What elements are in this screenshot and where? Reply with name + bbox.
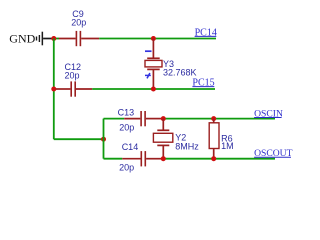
wire xyxy=(103,119,105,159)
node xyxy=(161,116,166,121)
wire xyxy=(53,39,55,140)
node xyxy=(151,87,156,92)
crystal Y3 xyxy=(145,39,197,90)
node xyxy=(51,87,56,92)
ground xyxy=(9,31,54,45)
svg-text:20p: 20p xyxy=(119,163,134,173)
net label PC14 xyxy=(195,27,217,38)
wire xyxy=(162,158,276,160)
capacitor C14 xyxy=(119,142,161,172)
node xyxy=(211,116,216,121)
net label PC15 xyxy=(192,78,214,89)
svg-text:C14: C14 xyxy=(122,142,139,152)
svg-text:C13: C13 xyxy=(118,108,135,118)
svg-text:8MHz: 8MHz xyxy=(175,141,199,151)
svg-text:20p: 20p xyxy=(71,17,86,27)
wire xyxy=(162,118,276,120)
node xyxy=(101,137,106,142)
wire xyxy=(54,138,104,140)
svg-text:GND: GND xyxy=(9,31,35,45)
svg-text:20p: 20p xyxy=(65,70,80,80)
wire xyxy=(54,38,59,40)
net label OSCOUT xyxy=(254,148,293,159)
pin marker minus xyxy=(145,50,152,52)
net label OSCIN xyxy=(254,109,283,120)
wire xyxy=(104,118,125,120)
node xyxy=(211,156,216,161)
crystal Y2 xyxy=(153,119,199,159)
node xyxy=(151,36,156,41)
wire xyxy=(92,88,215,90)
resistor R6 xyxy=(209,119,233,159)
svg-text:20p: 20p xyxy=(119,122,134,132)
wire xyxy=(99,38,216,40)
node xyxy=(51,36,56,41)
pin marker plus xyxy=(145,73,151,78)
capacitor C13 xyxy=(118,108,162,133)
svg-text:1M: 1M xyxy=(221,141,234,151)
capacitor C12 xyxy=(56,62,93,97)
node xyxy=(161,156,166,161)
capacitor C9 xyxy=(59,9,99,46)
svg-text:32.768K: 32.768K xyxy=(163,68,197,78)
wire xyxy=(104,158,123,160)
